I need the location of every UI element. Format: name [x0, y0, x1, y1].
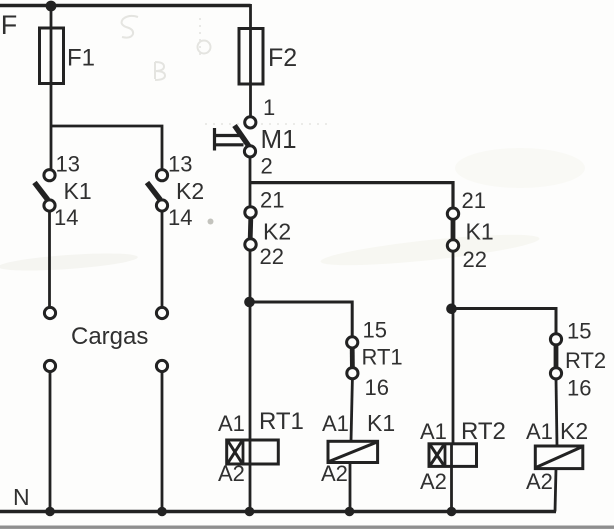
svg-text:21: 21 — [462, 188, 486, 213]
wire F rail (top horizontal) — [0, 4, 251, 8]
svg-text:A2: A2 — [218, 461, 245, 486]
contact bar — [451, 220, 456, 241]
wire K2 down to load terminal — [161, 211, 164, 308]
terminal circle 15 — [347, 337, 358, 348]
terminal circle 22 — [447, 240, 458, 251]
svg-text:16: 16 — [567, 376, 591, 401]
node junction F1 tap on F rail — [46, 1, 57, 12]
node junction RT1 branch — [244, 297, 255, 308]
wire N rail (bottom horizontal) — [0, 510, 556, 514]
svg-text:A1: A1 — [526, 419, 553, 444]
fuse F1 — [40, 28, 64, 84]
terminal circle 15 — [550, 334, 561, 345]
node N rail junction (K1 coil) — [345, 507, 355, 517]
contact K1 13-14 terminals — [35, 152, 92, 231]
scan artifact smudges — [0, 148, 585, 274]
coil body — [535, 446, 583, 469]
contact bar — [350, 348, 355, 368]
contact K2 moving blade — [147, 183, 160, 200]
svg-text:14: 14 — [168, 205, 192, 230]
wire K2 coil to N rail end — [555, 469, 556, 512]
wire F1 column (through fuse down to contact K1) — [50, 6, 53, 170]
X box partition — [444, 444, 447, 467]
coil K2 (relay coil) — [526, 418, 588, 494]
svg-text:K2: K2 — [176, 178, 204, 204]
svg-text:22: 22 — [260, 244, 284, 269]
svg-text:A2: A2 — [321, 461, 348, 486]
contact bar — [554, 345, 559, 367]
svg-text:15: 15 — [567, 319, 591, 344]
load terminal circle (left lower) — [44, 360, 55, 371]
svg-text:2: 2 — [261, 154, 273, 179]
wire right load to N rail — [161, 372, 164, 512]
wire K1 down to load terminal — [48, 211, 51, 308]
svg-text:13: 13 — [56, 152, 80, 177]
svg-text:RT1: RT1 — [362, 345, 403, 370]
svg-text:K2: K2 — [263, 219, 291, 245]
contact bar — [248, 218, 253, 239]
terminal circle 13 — [156, 170, 167, 181]
svg-text:15: 15 — [363, 318, 387, 343]
wire F2 column (F rail down through fuse to M1) — [249, 4, 252, 117]
scan artifact ghosts (show-through from reverse page) — [122, 16, 330, 124]
load terminal circle (right lower) — [156, 360, 167, 371]
svg-text:K1: K1 — [466, 219, 494, 245]
wire through coil — [249, 440, 252, 464]
svg-text:22: 22 — [463, 247, 487, 272]
load terminal circle (left upper) — [44, 307, 55, 318]
svg-text:RT2: RT2 — [461, 418, 506, 445]
terminal circle 14 — [44, 200, 55, 211]
svg-text:16: 16 — [365, 375, 389, 400]
svg-text:N: N — [13, 484, 30, 510]
contact K2 21-22 (NC) — [245, 188, 291, 270]
wire RT1 16 down to K1 coil — [351, 379, 352, 442]
terminal circle 21 — [447, 208, 458, 219]
wire branch to RT1 contact — [250, 302, 353, 337]
coil diagonal — [536, 447, 581, 467]
terminal circle 13 — [44, 170, 55, 181]
svg-text:K1: K1 — [367, 410, 395, 436]
coil body — [227, 440, 279, 464]
wire RT2 coil to N rail — [450, 466, 453, 511]
svg-text:1: 1 — [263, 95, 275, 120]
node N rail junction (RT1 coil) — [245, 507, 255, 517]
svg-text:14: 14 — [54, 205, 78, 230]
coil body — [328, 441, 378, 462]
coil K1 (relay coil) — [321, 410, 395, 486]
contact K2 13-14 terminals — [147, 152, 204, 231]
contact RT2 15-16 (NC) — [550, 319, 606, 401]
wire through coil — [450, 444, 453, 467]
svg-text:M1: M1 — [261, 124, 297, 154]
svg-text:RT1: RT1 — [259, 408, 304, 435]
pushbutton M1 actuator — [215, 128, 244, 151]
svg-text:F1: F1 — [67, 45, 95, 72]
pushbutton M1 terminal 1 — [245, 117, 256, 128]
svg-text:A1: A1 — [420, 419, 447, 444]
svg-text:A2: A2 — [526, 469, 553, 494]
fuse F2 — [239, 29, 263, 85]
wire M1 to contact K2 21 and branch to K1 21 — [249, 157, 252, 207]
contact K1 21-22 (NC) — [447, 188, 493, 272]
coil RT1 (thermal relay coil with X box) — [218, 408, 304, 486]
coil RT2 (thermal relay coil with X box) — [420, 418, 506, 494]
node N rail junction (left load) — [45, 507, 55, 517]
X box partition — [242, 440, 245, 464]
wire K1 coil to N rail — [349, 463, 352, 512]
X mark — [228, 442, 241, 463]
pushbutton M1 terminal 2 — [244, 146, 255, 157]
pushbutton M1 moving contact — [235, 126, 250, 148]
contact RT1 15-16 (NC) — [347, 318, 403, 401]
terminal circle 21 — [245, 207, 256, 218]
svg-text:A1: A1 — [322, 411, 349, 436]
svg-text:K1: K1 — [64, 178, 92, 204]
coil diagonal — [329, 442, 377, 461]
X mark — [430, 445, 443, 465]
svg-text:RT2: RT2 — [565, 348, 606, 373]
wire branch to right column — [250, 183, 453, 208]
svg-text:F2: F2 — [268, 44, 297, 72]
svg-text:13: 13 — [168, 152, 192, 177]
terminal circle 16 — [550, 368, 561, 379]
svg-text:K2: K2 — [560, 418, 588, 444]
node junction RT2 branch — [446, 304, 457, 315]
wire branch to K2 column — [51, 126, 162, 170]
wire branch to RT2 contact — [452, 309, 557, 335]
terminal circle 14 — [156, 200, 167, 211]
terminal circle 22 — [245, 239, 256, 250]
svg-text:Cargas: Cargas — [71, 323, 148, 350]
svg-text:21: 21 — [260, 188, 284, 213]
wire RT1 coil to N rail — [249, 464, 252, 512]
wire RT2 16 down to K2 coil — [556, 379, 557, 446]
contact K1 moving blade — [35, 183, 48, 200]
terminal circle 16 — [347, 368, 358, 379]
node N rail junction (RT2 coil) — [447, 507, 457, 517]
coil body — [429, 444, 477, 467]
wire K2 22 down to junction and RT1 coil — [249, 250, 252, 441]
wire left load to N rail — [49, 372, 52, 512]
wire K1 22 down to junction and RT2 coil — [452, 251, 455, 444]
scan artifact: page edge shadow at bottom — [0, 526, 614, 529]
svg-text:A1: A1 — [218, 411, 245, 436]
load terminal circle (right upper) — [156, 307, 167, 318]
node N rail junction (right load) — [157, 507, 167, 517]
svg-text:F: F — [1, 10, 18, 40]
svg-text:A2: A2 — [420, 469, 447, 494]
